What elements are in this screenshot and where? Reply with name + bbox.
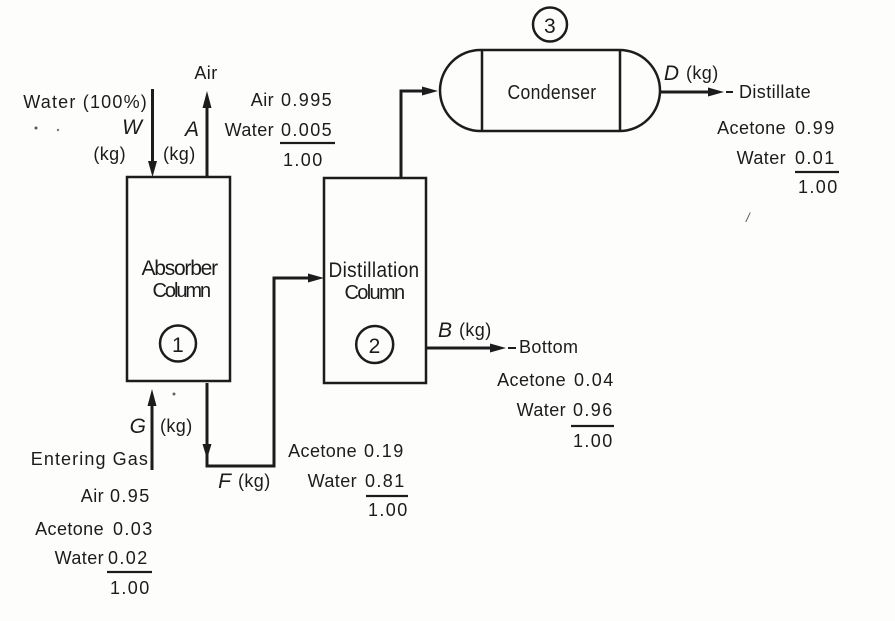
unit number 2: [356, 326, 393, 363]
svg-text:Entering Gas: Entering Gas: [31, 449, 149, 469]
svg-text:Acetone: Acetone: [35, 519, 104, 539]
svg-text:0.01: 0.01: [795, 148, 836, 168]
scan speck dots left: [35, 127, 60, 132]
svg-text:W: W: [122, 116, 144, 139]
svg-text:Distillate: Distillate: [739, 82, 811, 102]
svg-text:Air: Air: [251, 90, 274, 110]
svg-text:Water: Water: [308, 471, 357, 491]
svg-text:(kg): (kg): [238, 471, 271, 491]
condenser vessel (unit 3 capsule): [440, 50, 660, 131]
svg-text:Water: Water: [517, 400, 566, 420]
svg-text:Water (100%): Water (100%): [23, 92, 148, 112]
svg-text:(kg): (kg): [163, 144, 196, 164]
svg-text:(kg): (kg): [459, 320, 492, 340]
svg-text:Distillation: Distillation: [329, 259, 420, 282]
wire A air outlet: [203, 91, 212, 177]
label Absorber Column: [142, 257, 219, 302]
svg-text:Water: Water: [55, 548, 104, 568]
svg-text:G: G: [130, 415, 146, 438]
svg-text:(kg): (kg): [686, 63, 719, 83]
svg-text:Water: Water: [737, 148, 786, 168]
svg-text:0.19: 0.19: [364, 441, 405, 461]
svg-text:F: F: [218, 470, 232, 493]
unit number 3: [533, 8, 567, 42]
svg-text:Condenser: Condenser: [508, 82, 597, 104]
svg-text:D: D: [664, 62, 679, 85]
svg-text:1.00: 1.00: [110, 578, 151, 598]
svg-text:Air: Air: [194, 63, 217, 83]
wire W water inlet: [148, 89, 157, 177]
svg-text:3: 3: [544, 15, 556, 38]
svg-text:Acetone: Acetone: [717, 118, 786, 138]
svg-text:0.04: 0.04: [574, 370, 615, 390]
svg-text:1.00: 1.00: [798, 177, 839, 197]
svg-text:Column: Column: [153, 280, 212, 302]
scan speck near G: [173, 393, 176, 396]
svg-text:2: 2: [369, 335, 381, 358]
svg-text:0.81: 0.81: [365, 471, 406, 491]
svg-text:0.03: 0.03: [113, 519, 154, 539]
absorber column vessel (unit 1 box): [127, 177, 230, 381]
svg-text:0.995: 0.995: [281, 90, 333, 110]
wire G gas inlet: [148, 389, 157, 470]
svg-text:0.99: 0.99: [795, 118, 836, 138]
svg-text:0.005: 0.005: [281, 120, 333, 140]
wire F stream (absorber bottom to distillation feed): [203, 274, 325, 467]
entering gas composition list: [35, 486, 154, 598]
distillation column vessel (unit 2 box): [324, 178, 426, 383]
svg-text:Air: Air: [81, 486, 104, 506]
svg-text:Column: Column: [345, 282, 406, 304]
wire D distillate outlet: [660, 88, 733, 97]
wire B bottoms outlet: [426, 344, 516, 353]
svg-text:(kg): (kg): [93, 144, 126, 164]
svg-text:0.96: 0.96: [573, 400, 614, 420]
svg-text:Bottom: Bottom: [519, 337, 578, 357]
bottoms composition list: [497, 370, 615, 451]
svg-text:1.00: 1.00: [368, 500, 409, 520]
wire overhead vapor to condenser: [401, 87, 438, 179]
svg-text:A: A: [183, 118, 199, 141]
svg-text:B: B: [438, 319, 452, 342]
svg-text:0.95: 0.95: [110, 486, 151, 506]
svg-text:Acetone: Acetone: [497, 370, 566, 390]
svg-text:Water: Water: [225, 120, 274, 140]
svg-text:1.00: 1.00: [283, 150, 324, 170]
svg-text:0.02: 0.02: [108, 548, 149, 568]
svg-text:1: 1: [172, 334, 184, 357]
svg-text:Acetone: Acetone: [288, 441, 357, 461]
feed composition list: [288, 441, 409, 520]
svg-text:Absorber: Absorber: [142, 257, 219, 280]
svg-text:(kg): (kg): [160, 416, 193, 436]
distillate composition list: [717, 118, 839, 197]
svg-text:1.00: 1.00: [573, 431, 614, 451]
unit number 1: [160, 326, 196, 362]
label Distillation Column: [329, 259, 420, 304]
air stream composition list: [225, 90, 335, 170]
